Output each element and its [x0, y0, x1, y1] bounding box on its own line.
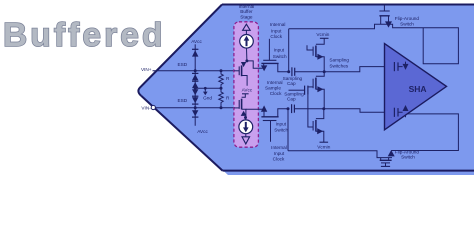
- sampling switch M3 (top rail to bottom rail): [316, 72, 324, 77]
- current source I1: [240, 35, 254, 49]
- transistor Q1 buffer follower: [241, 62, 246, 67]
- svg-text:Switch: Switch: [400, 22, 414, 27]
- svg-text:Internal: Internal: [267, 80, 283, 85]
- svg-text:Internal: Internal: [271, 145, 287, 150]
- wire top rail to SHA: [295, 67, 395, 72]
- svg-text:Stage: Stage: [240, 14, 253, 19]
- svg-text:AVcc: AVcc: [242, 88, 253, 93]
- terminal arrow to AVcc (hollow up): [243, 24, 251, 30]
- svg-text:Clock: Clock: [270, 34, 282, 39]
- resistor R1: [220, 69, 223, 72]
- svg-text:Vcmin: Vcmin: [316, 32, 329, 37]
- svg-text:Input: Input: [274, 48, 285, 53]
- svg-text:Input: Input: [274, 151, 285, 156]
- flip-around switch M7 top: [383, 5, 385, 11]
- diode D2: [192, 73, 198, 80]
- internal buffer stage dashed box: [234, 22, 259, 147]
- diode D1 ESD to AVcc: [192, 49, 198, 56]
- wire bottom rail to SHA: [294, 109, 394, 113]
- wire I1 to Q1: [246, 48, 248, 61]
- svg-text:Clock: Clock: [270, 91, 282, 96]
- arrow top edge: [222, 4, 474, 6]
- node Q1 source: [245, 59, 248, 62]
- svg-text:Switch: Switch: [273, 54, 287, 59]
- arrow bottom-left slant edge: [141, 96, 222, 171]
- svg-text:Internal: Internal: [270, 22, 286, 27]
- arrow top-left slant edge: [138, 5, 222, 96]
- svg-text:AVcc: AVcc: [197, 129, 208, 134]
- capacitor sampling cap bottom: [291, 104, 293, 113]
- wire Q2 output: [246, 108, 263, 110]
- diode D6: [192, 110, 198, 117]
- wire Q1 output: [247, 61, 263, 68]
- node junction VIN- diode: [194, 106, 197, 109]
- svg-text:Cap: Cap: [287, 97, 296, 102]
- svg-text:SHA: SHA: [409, 84, 427, 94]
- terminal arrow bottom (hollow down): [245, 134, 247, 137]
- svg-text:Cap: Cap: [287, 81, 296, 86]
- resistor R2: [220, 87, 223, 90]
- flip-around switch M6 bottom: [388, 150, 395, 156]
- svg-text:Clock: Clock: [273, 157, 285, 162]
- wire AVcc to D1: [194, 44, 196, 70]
- wire bottom flip-around run: [288, 151, 392, 158]
- terminal circle VIN-: [151, 105, 155, 109]
- capacitor SHA input top: [393, 62, 395, 71]
- svg-text:Switch: Switch: [274, 127, 288, 132]
- wire VIN- rail: [155, 107, 239, 109]
- sampling switch M2 (to Vcmin top): [316, 38, 324, 44]
- diode D3: [192, 81, 198, 88]
- Vcmin bottom terminal: [320, 141, 329, 143]
- svg-text:Switch: Switch: [401, 155, 415, 160]
- op-amp SHA: [385, 44, 447, 130]
- capacitor SHA input bottom: [393, 108, 395, 117]
- diode D5: [192, 97, 198, 104]
- svg-text:Gnd: Gnd: [203, 95, 212, 100]
- wire flip vertical bottom: [287, 109, 289, 151]
- capacitor sampling cap top: [291, 67, 293, 76]
- svg-text:ESD: ESD: [178, 62, 188, 67]
- input switch M4 bottom: [261, 105, 267, 111]
- node bottom rail / sampling switches: [322, 107, 325, 110]
- svg-text:Switches: Switches: [329, 64, 348, 69]
- wire flip vertical top: [288, 29, 290, 72]
- node junction mid: [194, 87, 197, 90]
- node top rail / sampling switches: [323, 70, 326, 73]
- transistor Q2 buffer follower: [242, 94, 246, 98]
- node sampling node bottom: [287, 107, 290, 110]
- svg-text:Input: Input: [276, 122, 287, 127]
- svg-text:ESD: ESD: [178, 98, 188, 103]
- internal sample clock wire and gate rail: [289, 89, 305, 91]
- svg-text:Sample: Sample: [265, 86, 281, 91]
- svg-text:AVcc: AVcc: [191, 39, 202, 44]
- svg-text:Input: Input: [271, 29, 282, 34]
- svg-text:VIN-: VIN-: [141, 105, 151, 110]
- arrow bottom edge line: [223, 170, 474, 172]
- wire top flip-around run: [289, 24, 459, 64]
- node Q2 source: [244, 116, 247, 119]
- diode D4: [192, 89, 198, 96]
- node sampling node top: [287, 70, 290, 73]
- current sink I2: [245, 118, 247, 120]
- svg-text:Flip-Around: Flip-Around: [395, 16, 420, 21]
- sampling switch M5 (to Vcmin bottom): [316, 109, 324, 119]
- node junction VIN+/diodes: [194, 69, 197, 72]
- wire mid gnd line: [195, 71, 221, 108]
- big blue arrow body: [138, 5, 474, 176]
- svg-text:VIN+: VIN+: [141, 67, 152, 72]
- svg-text:Sampling: Sampling: [329, 57, 349, 62]
- svg-text:Vcmin: Vcmin: [317, 144, 330, 149]
- input switch M1 top: [261, 65, 267, 71]
- svg-text:Buffered: Buffered: [3, 17, 166, 54]
- ground Gnd tap arrow: [204, 87, 207, 90]
- wire VIN+ rail: [153, 70, 240, 72]
- wire to AVcc bottom: [194, 108, 196, 126]
